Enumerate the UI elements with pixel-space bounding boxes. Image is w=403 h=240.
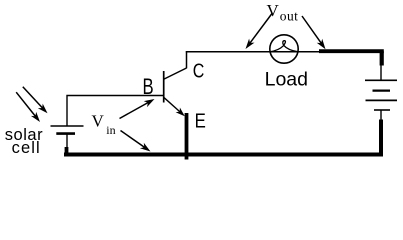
battery plate 4 short: [374, 109, 390, 111]
wire: thick stub at bottom-left corner: [65, 147, 69, 154]
svg-text:V: V: [92, 111, 105, 130]
wire: top rail thick segment: [319, 49, 384, 53]
label V_out: [267, 1, 299, 23]
lamp filament squiggle: [270, 41, 298, 52]
wire: bottom rail (thick): [64, 153, 383, 157]
solar cell negative short plate: [56, 132, 75, 135]
battery plate 3 long: [366, 99, 398, 101]
transistor Q1 emitter lead with arrow: [164, 97, 185, 116]
wire: thin lead into battery top: [380, 64, 382, 80]
Vin arrow to base node: [120, 99, 155, 119]
wire: thin lead from battery bottom: [380, 110, 382, 121]
svg-text:in: in: [106, 123, 115, 137]
battery plate 2 short: [373, 89, 391, 91]
lamp (load) circle: [270, 35, 298, 63]
wire: collector vertical to top rail: [186, 51, 188, 68]
Vout arrow to right wire: [302, 16, 326, 49]
svg-text:cell: cell: [12, 139, 41, 157]
svg-text:out: out: [280, 9, 298, 24]
wire: solar cell bottom lead: [66, 134, 68, 153]
light arrow 2 into solar cell: [16, 92, 40, 122]
wire: base wire from solar cell to transistor base: [67, 96, 164, 127]
svg-text:C: C: [193, 60, 205, 82]
label V_in: [92, 111, 116, 137]
svg-text:Load: Load: [265, 69, 308, 91]
Vin arrow to bottom rail: [121, 131, 151, 152]
svg-text:B: B: [143, 75, 154, 100]
Vout arrow to left wire: [246, 14, 273, 50]
svg-text:E: E: [195, 109, 206, 132]
wire: thick emitter vertical to bottom rail: [185, 113, 189, 160]
light arrow 1 into solar cell: [23, 87, 48, 114]
wire: thick right vertical to bottom rail: [379, 120, 383, 157]
solar cell positive long plate: [51, 125, 84, 127]
transistor Q1 base bar: [163, 71, 165, 103]
battery plate 1 long: [365, 79, 397, 81]
wire: top rail thin segment: [186, 51, 320, 53]
wire: thick right vertical from top corner: [380, 51, 384, 65]
transistor Q1 collector lead: [164, 68, 187, 79]
